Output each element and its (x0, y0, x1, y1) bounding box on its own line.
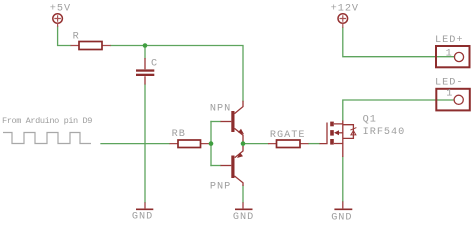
svg-text:PNP: PNP (210, 181, 231, 192)
svg-text:R: R (73, 31, 80, 42)
svg-text:GND: GND (331, 213, 352, 224)
svg-text:C: C (151, 58, 158, 69)
svg-text:NPN: NPN (210, 104, 231, 115)
svg-text:RGATE: RGATE (270, 130, 306, 141)
svg-text:GND: GND (132, 212, 153, 223)
svg-text:Q1: Q1 (363, 114, 377, 125)
svg-text:LED+: LED+ (435, 35, 463, 46)
svg-text:GND: GND (233, 212, 254, 223)
svg-text:+12V: +12V (331, 4, 359, 15)
svg-text:IRF540: IRF540 (363, 127, 406, 138)
svg-text:From Arduino pin D9: From Arduino pin D9 (2, 116, 92, 126)
svg-text:1: 1 (446, 48, 453, 59)
svg-text:RB: RB (172, 129, 186, 140)
svg-text:LED-: LED- (435, 77, 463, 88)
svg-text:+5V: +5V (50, 4, 71, 15)
svg-text:1: 1 (446, 89, 453, 100)
